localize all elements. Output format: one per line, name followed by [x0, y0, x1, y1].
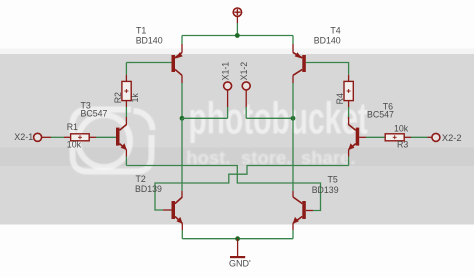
wire T4 base	[306, 62, 342, 64]
resistor R4	[344, 81, 353, 100]
svg-text:R1: R1	[67, 122, 78, 132]
svg-text:BD139: BD139	[312, 185, 339, 195]
wire T1 collector to left node	[181, 75, 183, 83]
svg-text:BC547: BC547	[81, 108, 108, 118]
svg-text:share.: share.	[301, 147, 356, 168]
wire bottom rail	[182, 238, 293, 240]
wire T2 emitter to bottom rail	[181, 223, 183, 230]
wire R2 bottom to T3 collector	[125, 101, 127, 107]
wire T3 emitter down	[125, 150, 127, 157]
transistor T2 (BD139 NPN)	[172, 197, 183, 224]
wire T5 emitter to bottom rail	[292, 223, 294, 230]
svg-text:store.: store.	[241, 147, 291, 168]
transistor T1 (BD140 PNP)	[172, 52, 183, 75]
terminal X2-1	[34, 133, 42, 141]
wire X2-1 to R1	[42, 136, 51, 138]
svg-text:host.: host.	[186, 147, 230, 168]
svg-text:BD140: BD140	[314, 36, 341, 46]
wire X1-2 to right node	[246, 117, 293, 119]
wire R4 bottom to T6 collector	[348, 101, 350, 107]
resistor R2	[122, 81, 131, 100]
svg-text:X2-2: X2-2	[442, 133, 462, 143]
svg-text:R4: R4	[335, 93, 345, 104]
svg-text:10k: 10k	[394, 124, 409, 134]
wire T1 emitter pin	[181, 36, 183, 45]
svg-text:BD140: BD140	[136, 36, 163, 46]
wire supply drop	[236, 23, 238, 36]
svg-text:GND': GND'	[229, 259, 251, 269]
svg-text:X1-1: X1-1	[220, 62, 230, 81]
subtle darker strip behind host-store-share	[0, 148, 474, 167]
node right rail junction	[291, 116, 296, 121]
wire right rail down	[292, 118, 294, 191]
svg-text:T2: T2	[136, 174, 146, 184]
ground bar	[230, 256, 245, 258]
transistor T3 (BC547 NPN)	[116, 125, 127, 150]
svg-text:BD139: BD139	[135, 184, 162, 194]
wire net A: T3 emitter to T5 base	[126, 166, 320, 211]
gray watermark band	[0, 54, 474, 225]
wire T4 emitter pin	[292, 36, 294, 45]
node GND junction	[235, 236, 240, 241]
wire T6 emitter down	[348, 150, 350, 157]
node top junction	[235, 33, 240, 38]
svg-text:T1: T1	[136, 25, 146, 35]
supply symbol +V	[233, 8, 241, 16]
svg-text:10k: 10k	[67, 139, 82, 149]
resistor R1	[71, 134, 90, 141]
transistor T5 (BD139 NPN)	[293, 197, 306, 224]
ground pin	[237, 239, 239, 256]
wire T1 base	[133, 62, 172, 64]
svg-text:X2-1: X2-1	[14, 132, 33, 142]
wire top rail	[182, 35, 293, 37]
resistor R3	[385, 134, 404, 141]
transistor T6 (BC547 NPN)	[348, 125, 359, 150]
svg-text:X1-2: X1-2	[239, 62, 249, 81]
terminal X1-2	[242, 82, 250, 90]
terminal X1-1	[224, 82, 232, 90]
svg-text:R3: R3	[397, 139, 408, 149]
wire X1-1 to left node	[182, 117, 228, 119]
transistor T4 (BD140 PNP)	[293, 52, 306, 75]
wire T6 base to R3	[359, 136, 366, 138]
wire net B: T6 emitter to T2 base	[155, 166, 349, 211]
wire T4 collector to right node	[292, 75, 294, 83]
wire R3 to X2-2	[404, 136, 411, 138]
svg-text:T4: T4	[330, 25, 340, 35]
wire left rail down	[181, 118, 183, 191]
camera lens	[78, 115, 130, 167]
terminal X2-2	[432, 133, 440, 141]
svg-text:BC547: BC547	[367, 110, 394, 120]
svg-text:R2: R2	[113, 92, 123, 103]
camera swoosh	[134, 111, 153, 130]
camera body	[73, 110, 152, 172]
svg-text:T5: T5	[328, 175, 338, 185]
svg-text:1k: 1k	[130, 93, 140, 103]
node left rail junction	[180, 116, 185, 121]
wire R1 to T3 base	[89, 136, 96, 138]
